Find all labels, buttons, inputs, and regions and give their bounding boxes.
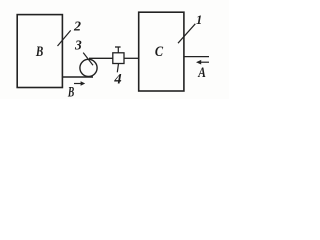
leader line 3 [83, 53, 93, 66]
svg-text:3: 3 [74, 38, 82, 53]
wire C to right [184, 56, 209, 58]
svg-text:2: 2 [73, 20, 81, 35]
wire pump to valve [89, 57, 113, 59]
pump circle 3 [80, 59, 97, 76]
box C (chamber 1) [139, 12, 184, 91]
svg-text:B: B [67, 85, 74, 99]
svg-text:B: B [35, 44, 43, 60]
arrow B (flow direction) [74, 81, 85, 85]
valve 4 body [113, 53, 124, 64]
svg-text:C: C [155, 44, 163, 60]
leader line 4 [117, 64, 118, 73]
svg-text:4: 4 [113, 71, 121, 87]
svg-text:A: A [197, 65, 206, 81]
valve stem cap [115, 46, 121, 48]
box B (vessel 2) [17, 15, 62, 88]
svg-text:1: 1 [196, 13, 202, 27]
valve stem [117, 47, 119, 53]
wire B to pump [62, 76, 93, 78]
wire valve to box C [124, 57, 139, 59]
leader line 1 [178, 24, 195, 43]
leader line 2 [58, 30, 71, 46]
arrow A (flow direction) [196, 60, 209, 65]
